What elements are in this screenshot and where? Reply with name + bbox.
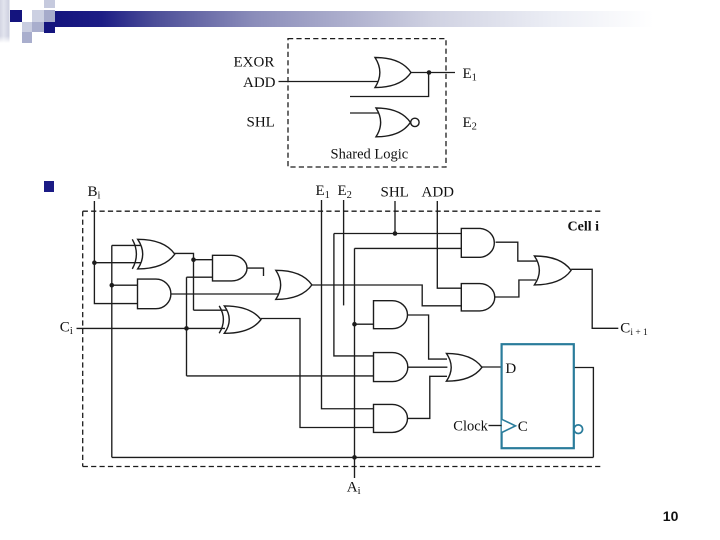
or-gate U1 (E1 = EXOR+ADD)	[375, 58, 411, 88]
xor X2 lead arc	[219, 306, 223, 333]
junction E1 node	[427, 70, 432, 75]
dashed box Cell i bottom edge	[83, 466, 603, 468]
deco square light top	[44, 0, 55, 8]
wire A6 output to O3	[408, 366, 448, 368]
wire feedback to and A1	[112, 284, 138, 286]
or-gate O2	[534, 256, 571, 285]
bubble U2 output	[411, 118, 419, 126]
wire A1 output to or O1	[171, 293, 279, 295]
junction Ai node lower	[352, 455, 357, 460]
junction X1 output node	[191, 257, 196, 262]
deco square dark navy top-left	[10, 10, 22, 22]
wire Ai vertical	[354, 248, 356, 478]
deco square dark navy small	[44, 22, 55, 33]
wire SHL row to A3	[334, 233, 461, 235]
svg-text:E1: E1	[463, 66, 477, 84]
wire Ci to and A2	[187, 276, 213, 278]
deco square medium	[44, 10, 55, 22]
junction Ci node	[184, 326, 189, 331]
wire SHL input stub	[350, 112, 380, 114]
d-flip-flop FF1	[502, 344, 574, 448]
nor-gate U2 (E2)	[376, 108, 410, 137]
junction SHL node	[393, 231, 398, 236]
top gradient bar	[55, 11, 720, 27]
wire SHL branch to A6	[334, 234, 374, 356]
deco square medium lower	[22, 32, 32, 43]
wire feedback vertical	[111, 245, 113, 457]
wire SHL vertical	[394, 201, 396, 234]
xor X1 lead arc	[132, 239, 136, 269]
svg-text:Ai: Ai	[347, 480, 361, 498]
junction Bi node	[92, 260, 97, 265]
deco square medium small	[32, 22, 44, 32]
dashed box Shared Logic	[288, 39, 446, 167]
wire A7 output to O3	[408, 376, 448, 418]
svg-text:ADD: ADD	[422, 185, 455, 201]
svg-text:D: D	[505, 361, 516, 377]
clock triangle pin C	[502, 419, 516, 432]
svg-text:10: 10	[663, 508, 679, 524]
wire ADD input	[279, 81, 379, 83]
or-gate O3	[446, 353, 482, 381]
svg-text:ADD: ADD	[243, 75, 276, 91]
svg-text:Shared Logic: Shared Logic	[331, 147, 409, 163]
wire O3 output to D	[482, 366, 502, 368]
wire A2 output stub	[243, 268, 264, 276]
and-gate A7	[374, 404, 408, 432]
wire Ai to A3	[355, 247, 462, 249]
deco square light	[32, 10, 44, 22]
wire E1 feedback down	[350, 73, 429, 97]
bubble FF complement output	[574, 425, 583, 434]
and-gate A5	[374, 301, 408, 329]
svg-text:Bi: Bi	[88, 184, 101, 202]
wire A4 output to O2	[495, 280, 536, 297]
bullet square	[44, 181, 54, 192]
and-gate A3	[461, 228, 494, 257]
and-gate A4	[461, 284, 494, 311]
wire bottom feedback run	[112, 456, 594, 458]
wire FF Q feedback	[574, 368, 594, 458]
junction feedback node	[110, 283, 115, 288]
wire clock input	[489, 425, 502, 427]
svg-text:SHL: SHL	[381, 185, 409, 201]
deco square light small	[22, 22, 32, 32]
wire Ai to A5	[355, 323, 374, 325]
wire Bi vertical	[94, 201, 137, 304]
junction Ai node upper	[352, 322, 357, 327]
xor-gate X2	[224, 306, 261, 333]
wire ADD vertical to A4	[437, 201, 461, 288]
svg-text:Ci: Ci	[60, 320, 73, 338]
svg-text:C: C	[518, 419, 528, 435]
wire E2 vertical stub	[343, 200, 345, 305]
or-gate O1	[276, 270, 312, 299]
wire A3 output to O2	[496, 242, 537, 261]
svg-text:E1: E1	[316, 183, 330, 201]
wire Ci branch vertical	[186, 277, 188, 376]
and-gate A6	[374, 353, 408, 382]
dashed box Cell i top edge	[83, 210, 601, 212]
and-gate A1	[138, 279, 171, 309]
svg-text:Clock: Clock	[453, 419, 488, 435]
svg-text:Ci + 1: Ci + 1	[620, 321, 648, 339]
svg-text:SHL: SHL	[247, 114, 275, 130]
left gradient strip decoration	[0, 0, 10, 43]
wire X1out to xor X2	[194, 309, 230, 311]
wire X1out to and A2	[194, 259, 213, 261]
dashed box Cell i left edge	[82, 211, 84, 466]
wire A5 output to O3	[408, 315, 448, 359]
wire Bi to xor X1	[94, 262, 142, 264]
wire feedback to X1 top	[112, 244, 143, 246]
wire X1 output	[174, 253, 194, 310]
wire E1 output	[411, 72, 455, 74]
wire Ci input line	[77, 327, 226, 329]
wire O2 output to Ci+1	[571, 269, 618, 328]
svg-text:Cell i: Cell i	[568, 219, 600, 234]
wire O1 output to A4	[312, 285, 461, 306]
svg-text:E2: E2	[338, 183, 352, 201]
and-gate A2	[213, 255, 247, 281]
svg-text:EXOR: EXOR	[234, 55, 275, 71]
wire E1 vertical to A7	[322, 200, 374, 409]
xor-gate X1	[138, 239, 175, 269]
svg-text:E2: E2	[463, 115, 477, 133]
wire Ci to and A6	[187, 375, 374, 377]
wire X2 output	[261, 319, 374, 428]
